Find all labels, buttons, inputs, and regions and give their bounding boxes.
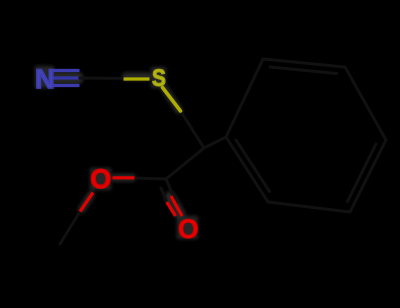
svg-text:N: N: [35, 64, 55, 94]
svg-text:S: S: [152, 64, 166, 91]
svg-text:O: O: [178, 214, 199, 244]
svg-text:O: O: [90, 164, 111, 194]
